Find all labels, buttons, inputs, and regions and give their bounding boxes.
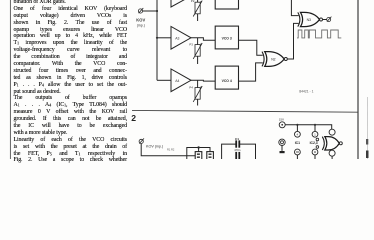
- capacitor C1: [235, 140, 240, 147]
- svg-text:470n: 470n: [234, 148, 241, 152]
- node rail IC2,3: [314, 124, 316, 126]
- potentiometer P4: [193, 80, 202, 105]
- square wave output waveform: [297, 30, 341, 38]
- svg-text:VCO 4: VCO 4: [222, 79, 232, 83]
- pin circle IC1 pin 11: [295, 149, 301, 155]
- wire bus to A3: [157, 37, 171, 39]
- left text column: [14, 0, 128, 164]
- potentiometer P3: [193, 38, 202, 64]
- svg-text:P2: P2: [191, 0, 195, 3]
- op-amp A2 (partial, cut at top): [171, 0, 191, 7]
- wire N2 output to N3 input 2: [287, 23, 298, 59]
- resistor R1 (cut at bottom): [195, 152, 202, 160]
- svg-text:N3: N3: [307, 18, 311, 22]
- svg-text:KOV: KOV: [136, 17, 145, 22]
- wire A4 output with jog to VCO4: [191, 79, 215, 82]
- wire R network rail: [187, 148, 210, 160]
- node rail IC1: [296, 124, 298, 126]
- resistor R2 (cut at bottom): [207, 152, 214, 160]
- svg-text:N2: N2: [271, 58, 275, 62]
- KOV input terminal (fig 1): [138, 8, 143, 13]
- output terminal: [327, 17, 332, 22]
- label KOV (inp.) fig1: [136, 17, 145, 27]
- pin circle IC2,3 pin 7: [312, 149, 318, 155]
- wire A3 output with jog to VCO3: [191, 38, 215, 41]
- wire from top (N1 output) to N3 input 1: [291, 0, 298, 16]
- wire N3 output to terminal: [323, 19, 327, 21]
- VCO 3 block: [215, 26, 238, 49]
- svg-text:A4: A4: [175, 79, 179, 83]
- gate supply pin circle top: [329, 129, 335, 135]
- node R rail: [197, 146, 199, 148]
- node on bus: [156, 10, 158, 12]
- wire from fig2 terminal down and right: [141, 144, 195, 156]
- svg-text:.: .: [202, 151, 203, 154]
- tiny labels above resistors: [167, 147, 203, 154]
- wire supply rail: [285, 125, 332, 129]
- KOV input terminal (fig 2): [139, 138, 144, 143]
- VCO 2 block (partial, cut at top): [215, 0, 238, 9]
- capacitor C2 (cut at bottom): [235, 152, 240, 159]
- VCO 4 block: [215, 66, 238, 89]
- wire bus to A4: [157, 79, 171, 81]
- 0V terminal: [279, 139, 285, 145]
- wire stems to pin circles: [296, 125, 298, 132]
- gate output pin circle: [339, 142, 342, 145]
- svg-text:C1: C1: [235, 137, 239, 141]
- figure 2 number: [131, 113, 136, 123]
- svg-text:84421 - 1: 84421 - 1: [299, 89, 313, 93]
- op-amp A4: [171, 69, 191, 92]
- wire to ground: [281, 146, 283, 151]
- svg-text:A3: A3: [175, 37, 179, 41]
- +15V terminal: [279, 122, 285, 128]
- wire capacitor loop: [222, 144, 236, 159]
- svg-text:15V: 15V: [279, 118, 284, 122]
- svg-text:IC1: IC1: [295, 141, 300, 145]
- pin circle IC2,3 supply pin 14: [312, 131, 318, 137]
- op-amp A3: [171, 27, 191, 50]
- gate input pin circles: [316, 138, 319, 141]
- svg-text:P3: P3: [189, 43, 193, 47]
- XOR gate IC2,3 (pin detail): [322, 137, 339, 150]
- node bus row3: [156, 37, 158, 39]
- svg-text:IC2,3: IC2,3: [310, 141, 318, 145]
- svg-text:R1 R2: R1 R2: [167, 147, 175, 151]
- svg-text:4: 4: [297, 133, 299, 137]
- potentiometer P2: [193, 0, 202, 21]
- svg-text:KOV (inp.): KOV (inp.): [146, 145, 163, 149]
- XOR gate N3: [298, 12, 320, 26]
- wire VCO3 to N2 input 1: [239, 40, 263, 55]
- N3 output node circle: [320, 18, 323, 21]
- wire VCO4 to N2 input 2: [239, 63, 263, 81]
- svg-text:VCO 3: VCO 3: [222, 36, 232, 40]
- wire input to bus: [143, 10, 157, 12]
- svg-text:(inp.): (inp.): [137, 23, 145, 27]
- N2 output node circle: [284, 58, 287, 61]
- pin circle IC1 supply pin 4: [295, 131, 301, 137]
- svg-text:P4: P4: [189, 86, 193, 90]
- XOR gate N2: [262, 52, 284, 67]
- svg-text:1: 1: [314, 133, 316, 137]
- gate supply pin circle bottom: [329, 150, 335, 156]
- wire KOV bus vertical: [156, 0, 158, 80]
- ground: [280, 151, 285, 153]
